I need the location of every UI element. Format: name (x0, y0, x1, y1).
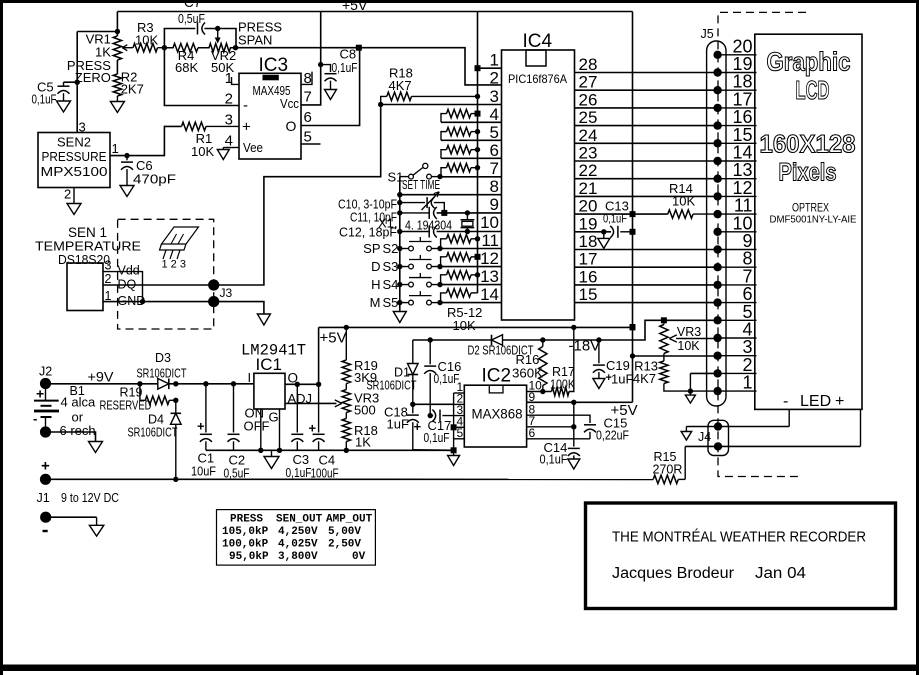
label +5V (regulator) (320, 330, 347, 347)
svg-text:SP: SP (363, 241, 380, 256)
node op-amp output junction (356, 45, 362, 51)
pin 3 DS18S20 Vdd (103, 259, 143, 302)
label C8 (340, 47, 357, 62)
svg-text:12: 12 (480, 249, 499, 268)
svg-text:16: 16 (579, 267, 598, 286)
label D2 type (468, 344, 534, 358)
svg-text:10: 10 (480, 213, 499, 232)
pin 2 J4 (714, 442, 722, 450)
svg-text:10K: 10K (677, 339, 700, 353)
pin 19 J5 number (732, 54, 752, 74)
label 500 (354, 403, 376, 418)
wire IC4 pin25 to J5 (575, 125, 718, 127)
wire IC4 pin21 to J5 (575, 195, 718, 197)
label ON (245, 406, 265, 421)
pin 24 IC4 number (579, 126, 598, 145)
svg-text:4 alca: 4 alca (61, 395, 96, 410)
svg-text:-: - (783, 393, 788, 410)
pin 1 J5 (713, 387, 756, 395)
label IC2 (482, 366, 512, 387)
label R18 value (389, 78, 412, 93)
svg-text:J1: J1 (37, 491, 50, 505)
label R14 value (672, 194, 695, 209)
ground (C14) (568, 459, 580, 469)
svg-text:17: 17 (579, 250, 598, 269)
wire IC4 pin20 Vdd (575, 211, 668, 217)
svg-text:OFF: OFF (244, 419, 270, 434)
label 3K9 (354, 370, 377, 385)
svg-text:S4: S4 (383, 277, 399, 292)
ground (SEN1) (257, 314, 270, 325)
wire +5V distribution (319, 324, 636, 330)
node C3 tap (295, 382, 300, 387)
wire IC4 pin5 (441, 139, 502, 141)
svg-text:3: 3 (225, 112, 233, 129)
pin 1 IC4 number (490, 51, 499, 70)
pin 16 IC4 number (579, 267, 598, 286)
svg-text:+: + (41, 458, 50, 475)
ground (J5 pin1) (685, 391, 695, 403)
label SPAN (238, 33, 272, 48)
pin 12 J5 (713, 192, 756, 200)
resistor R13 (660, 356, 718, 391)
svg-text:SEN2: SEN2 (57, 135, 91, 150)
svg-text:2: 2 (64, 187, 71, 202)
svg-text:RESERVED: RESERVED (100, 399, 152, 413)
label -18V (569, 338, 601, 355)
svg-text:21: 21 (579, 179, 598, 198)
node +5V to LCD Vdd (630, 353, 635, 358)
pin 1 IC4 wire (475, 65, 502, 71)
svg-text:I: I (248, 370, 252, 385)
svg-text:14: 14 (480, 285, 499, 304)
svg-text:28: 28 (579, 55, 598, 74)
label C15 (604, 416, 628, 431)
wire IC4 pin4 (441, 121, 502, 123)
label IC1 (256, 355, 282, 374)
svg-text:Jacques Brodeur: Jacques Brodeur (612, 565, 734, 582)
pin 1 SEN2 label (112, 141, 119, 156)
svg-text:1: 1 (225, 70, 233, 87)
svg-text:SET TIME: SET TIME (402, 178, 440, 192)
svg-text:+5V: +5V (342, 0, 368, 13)
label R2 (121, 70, 138, 85)
svg-text:MAX495: MAX495 (253, 84, 291, 98)
table header (230, 514, 373, 526)
pin 13 J5 number (732, 160, 752, 180)
svg-text:9: 9 (490, 195, 499, 214)
label C6 (136, 158, 153, 173)
label B1 (70, 384, 85, 398)
pin 10 J5 number (732, 213, 752, 233)
pin 5 IC3 stub (301, 129, 321, 146)
pin 19 IC4 number (579, 214, 598, 233)
node switch S2 tap (397, 246, 402, 251)
wiper arrow VR2 (215, 31, 221, 44)
wire LED- to J4 (686, 409, 789, 426)
label PIC16f876A (508, 72, 567, 86)
author text (612, 565, 806, 582)
capacitor C8 (321, 65, 337, 90)
diode D4 (171, 400, 182, 479)
node C8 tap (318, 62, 323, 67)
svg-text:5: 5 (457, 426, 464, 440)
resistor R18 (4K7 pullup) (381, 92, 478, 104)
sensor SEN2 box (38, 133, 110, 188)
svg-text:S3: S3 (383, 259, 399, 274)
capacitor C18 (407, 404, 422, 450)
dashed module boundary (718, 12, 806, 476)
resistor R19 reserved (140, 384, 179, 405)
LCD module box (755, 34, 862, 409)
svg-text:5: 5 (490, 123, 499, 142)
pin 2 IC4 number (490, 69, 499, 88)
label J2 (39, 365, 52, 379)
pin 21 IC4 number (579, 179, 598, 198)
label R4 (178, 48, 195, 63)
label C5 value (32, 93, 57, 107)
svg-text:J4: J4 (698, 430, 711, 444)
ground (IC3 Vee) (217, 148, 229, 160)
pin 7 J5 (713, 281, 756, 289)
svg-text:68K: 68K (175, 60, 198, 75)
label +9V (88, 369, 115, 385)
wire IC1 on/off to ground (258, 409, 263, 453)
wire IC4 pin15 to J5 (575, 302, 718, 304)
pin 15 J5 (713, 139, 756, 147)
svg-text:SR106DICT: SR106DICT (128, 426, 178, 440)
label SEN 1 (68, 225, 107, 240)
pin 20 J5 (713, 51, 756, 59)
node R16 top (540, 337, 545, 342)
charge pump IC2 body (464, 385, 526, 447)
ground (IC2) (448, 451, 460, 466)
node switch S4 tap (397, 282, 402, 287)
node switch S5 tap (397, 300, 402, 305)
capacitor C6 (121, 156, 133, 186)
node C12 row tap (397, 229, 402, 234)
connector J1 plus terminal (40, 474, 51, 485)
svg-text:SR106DICT: SR106DICT (137, 367, 187, 381)
label ADJ (288, 391, 313, 406)
svg-text:4K7: 4K7 (633, 371, 656, 386)
resistor R14 (668, 210, 718, 218)
svg-text:MAX868: MAX868 (472, 406, 523, 422)
svg-text:24: 24 (579, 126, 598, 145)
dashed boundary (SEN1) (118, 219, 214, 329)
pin 13 IC4 number (480, 267, 499, 286)
pin 12 J5 number (732, 178, 752, 198)
pin 7 IC4 number (490, 159, 499, 178)
wire IC1 output (285, 327, 319, 384)
node C1 tap (203, 381, 208, 386)
resistor R18 (1K) (342, 413, 350, 451)
ground (J1) (89, 517, 103, 536)
resistor R8 pullup (441, 163, 480, 176)
svg-text:D4: D4 (148, 413, 164, 427)
node C4 tap (316, 382, 321, 387)
svg-text:1uF: 1uF (387, 417, 409, 432)
label D1 (394, 366, 410, 380)
label R15 value (653, 463, 683, 477)
label R19 (reserved) (120, 386, 143, 400)
label IC3 (259, 55, 289, 76)
node D4 to rail (173, 477, 178, 482)
label C16 value (434, 372, 460, 386)
diode D1 (408, 340, 419, 404)
svg-text:Vdd: Vdd (118, 264, 140, 278)
label R16 (516, 352, 540, 367)
label C7 value (178, 11, 205, 26)
label 6 rech (60, 423, 96, 438)
wiper VR3 to J5 pin4 (669, 335, 717, 342)
resistor R16 (539, 340, 547, 392)
wire -18V row (413, 339, 492, 341)
ground bus (regulator) (206, 449, 454, 451)
pin 14 J5 number (732, 143, 752, 163)
pin 1 J5 number (742, 373, 752, 393)
pin 5 J5 number (742, 302, 752, 322)
svg-text:470pF: 470pF (133, 173, 176, 187)
title block box (586, 503, 896, 609)
label R13 value (633, 371, 656, 386)
svg-text:PRESSURE: PRESSURE (42, 150, 107, 164)
svg-text:0,5uF: 0,5uF (178, 11, 205, 26)
svg-text:2: 2 (105, 272, 112, 286)
pin 7 IC3 Vcc wire (301, 12, 321, 106)
label X1 frequency (405, 217, 452, 232)
pin 5 IC2 stub (454, 426, 465, 440)
svg-text:+: + (197, 419, 205, 434)
capacitor C14 (568, 402, 580, 459)
wire D3 to IC1 (169, 383, 254, 385)
wire IC3 output vertical (301, 48, 360, 126)
svg-text:3: 3 (105, 259, 112, 273)
pin 18 J5 number (732, 72, 752, 92)
pin 7 IC2 wire (527, 414, 577, 429)
label C3 (293, 452, 310, 467)
svg-text:Vcc: Vcc (280, 97, 299, 111)
battery B1 (34, 384, 59, 427)
svg-text:270R: 270R (653, 463, 683, 477)
label VR3 (10K) (677, 325, 701, 339)
node press-span junction (233, 45, 238, 50)
switch S1 (400, 163, 438, 179)
calibration table box (217, 510, 376, 565)
label SP S2 (363, 241, 398, 256)
node Vdd-GND tie (140, 299, 145, 304)
label C4 value (311, 467, 339, 481)
resistor R19 (3K9) (342, 327, 350, 383)
svg-text:ZERO: ZERO (75, 70, 111, 85)
pin 9 J5 (713, 245, 756, 253)
connector J5 outline (707, 41, 726, 406)
svg-text:160X128: 160X128 (760, 131, 856, 159)
connector J3 pin DQ (208, 279, 219, 290)
svg-text:95,0kP: 95,0kP (229, 551, 269, 563)
node R17 to +5V (571, 325, 576, 330)
pin 6 IC2 wire (527, 426, 590, 440)
svg-text:SPAN: SPAN (238, 33, 272, 48)
pin 11 IC4 number (481, 231, 499, 250)
potentiometer VR3 (500) (342, 384, 350, 413)
svg-text:Pixels: Pixels (779, 159, 837, 187)
wire IC4 pin19 / C13 (575, 229, 612, 234)
pin 9 IC4 number (490, 195, 499, 214)
label Vcc (280, 97, 299, 111)
resistor R7 pullup (441, 145, 480, 158)
pin 4 J5 number (742, 320, 752, 340)
pin 2 DS18S20 DQ (105, 272, 137, 292)
svg-text:0,22uF: 0,22uF (596, 429, 629, 443)
pin 28 IC4 number (579, 55, 598, 74)
node VR2 wiper junction (215, 26, 220, 31)
svg-text:22: 22 (579, 161, 598, 180)
label R19 divider (354, 358, 378, 373)
wire J1 minus (46, 516, 97, 518)
label MAX868 (472, 406, 523, 422)
pin 6 J5 (713, 298, 756, 306)
svg-text:THE MONTRÉAL WEATHER RECORDER: THE MONTRÉAL WEATHER RECORDER (612, 529, 866, 546)
label R13 (634, 359, 658, 374)
svg-text:15: 15 (579, 285, 598, 304)
pin 3 IC4 number (490, 87, 499, 106)
node C5 tap (75, 80, 80, 85)
label J1 plus (41, 458, 50, 475)
wire IC4 pin14 (440, 302, 502, 304)
wire IC4 pin12 (440, 266, 502, 268)
capacitor C16 (424, 340, 436, 416)
connector J1 minus terminal (40, 512, 51, 523)
svg-text:27: 27 (579, 73, 598, 92)
pin 3 IC3 wire (206, 112, 239, 129)
svg-text:D3: D3 (155, 351, 171, 365)
pin 2 IC2 stub (454, 392, 465, 406)
capacitor C4 (309, 384, 325, 450)
wire switch common bus (399, 177, 401, 312)
svg-text:1: 1 (490, 51, 499, 70)
wire +5V pullup bus (477, 12, 479, 294)
node ground row tap (397, 192, 402, 197)
svg-text:+: + (242, 119, 251, 136)
capacitor C17 (430, 410, 464, 422)
label C2 (229, 453, 246, 468)
pin 17 J5 (713, 104, 756, 112)
svg-text:S5: S5 (383, 295, 399, 310)
svg-text:+5V: +5V (320, 330, 347, 347)
svg-text:1: 1 (742, 373, 752, 393)
pin 18 IC4 number (579, 232, 598, 251)
wire IC4 pin3 (381, 104, 502, 106)
label OFF (244, 419, 270, 434)
label Graphic (767, 47, 851, 77)
label SEN2 (57, 135, 91, 150)
svg-text:4: 4 (225, 133, 233, 150)
pin 2 J5 number (742, 355, 752, 375)
svg-text:MPX5100: MPX5100 (41, 165, 108, 179)
label VR2 value (211, 60, 234, 75)
label C13 value (603, 212, 627, 226)
node C16 top (428, 337, 433, 342)
label O output (288, 371, 299, 386)
wire +5V top rail (117, 11, 632, 13)
wire IC2 ground row (413, 449, 454, 452)
svg-text:3,800V: 3,800V (278, 551, 318, 563)
label R17 (552, 365, 575, 379)
ground (C13) (598, 232, 610, 249)
wire C12 row (400, 231, 502, 233)
capacitor C15 (584, 425, 596, 439)
svg-text:PIC16f876A: PIC16f876A (508, 72, 567, 86)
svg-text:8: 8 (304, 70, 312, 87)
svg-text:D1: D1 (394, 366, 410, 380)
pin 27 IC4 number (579, 73, 598, 92)
table row 3 (229, 551, 366, 563)
label plus input (242, 119, 251, 136)
wire op-amp output to IC4 pin2 (236, 48, 502, 85)
wire IC4 pin24 to J5 (575, 142, 718, 144)
svg-text:C2: C2 (229, 453, 246, 468)
wire C5/SEN2 vertical (76, 32, 78, 134)
label LM2941T (241, 342, 306, 360)
label R17 value (550, 378, 576, 392)
label ZERO (75, 70, 111, 85)
label D3 type (137, 367, 187, 381)
svg-text:10K: 10K (191, 144, 214, 159)
label D3 (155, 351, 171, 365)
svg-text:2: 2 (490, 69, 499, 88)
wire IC1 ADJ (285, 400, 342, 407)
svg-text:360K: 360K (512, 367, 544, 381)
svg-text:1K: 1K (355, 435, 371, 450)
label C14 value (540, 453, 568, 467)
pin 7 J5 number (742, 266, 752, 286)
svg-text:6: 6 (304, 109, 312, 126)
resistor R17 (552, 327, 574, 395)
label C1 value (191, 465, 216, 479)
svg-text:0V: 0V (352, 551, 366, 563)
capacitor C7 (198, 23, 206, 35)
label VR3 divider (354, 391, 379, 406)
wire C5 stub (64, 81, 78, 83)
label M S5 (370, 295, 399, 310)
wire IC4 pin13 (440, 284, 502, 286)
switch S4 (400, 273, 443, 287)
svg-text:1: 1 (105, 289, 112, 303)
svg-text:+: + (36, 386, 44, 402)
title text (612, 529, 866, 546)
label D4 type (128, 426, 178, 440)
ground (SEN2) (67, 204, 81, 215)
label R3 (137, 20, 154, 35)
pin 13 J5 (713, 175, 756, 183)
svg-text:G: G (269, 410, 279, 425)
label C17 (428, 418, 452, 433)
label 1 2 3 (TO-92) (162, 259, 186, 271)
svg-text:O: O (286, 118, 297, 134)
svg-text:0,1uF: 0,1uF (540, 453, 568, 467)
svg-text:Graphic: Graphic (767, 47, 851, 77)
svg-text:1: 1 (112, 141, 119, 156)
resistor R4 (164, 44, 198, 52)
wire IC4 pin16 to J5 (575, 284, 718, 286)
sensor DS18S20 box (67, 263, 103, 311)
node feedback left junction (162, 45, 167, 50)
pin 11 J5 (713, 210, 756, 218)
table row 2 (222, 539, 361, 551)
label VR1 value (95, 45, 111, 60)
node DQ/R18 junction (378, 102, 383, 107)
